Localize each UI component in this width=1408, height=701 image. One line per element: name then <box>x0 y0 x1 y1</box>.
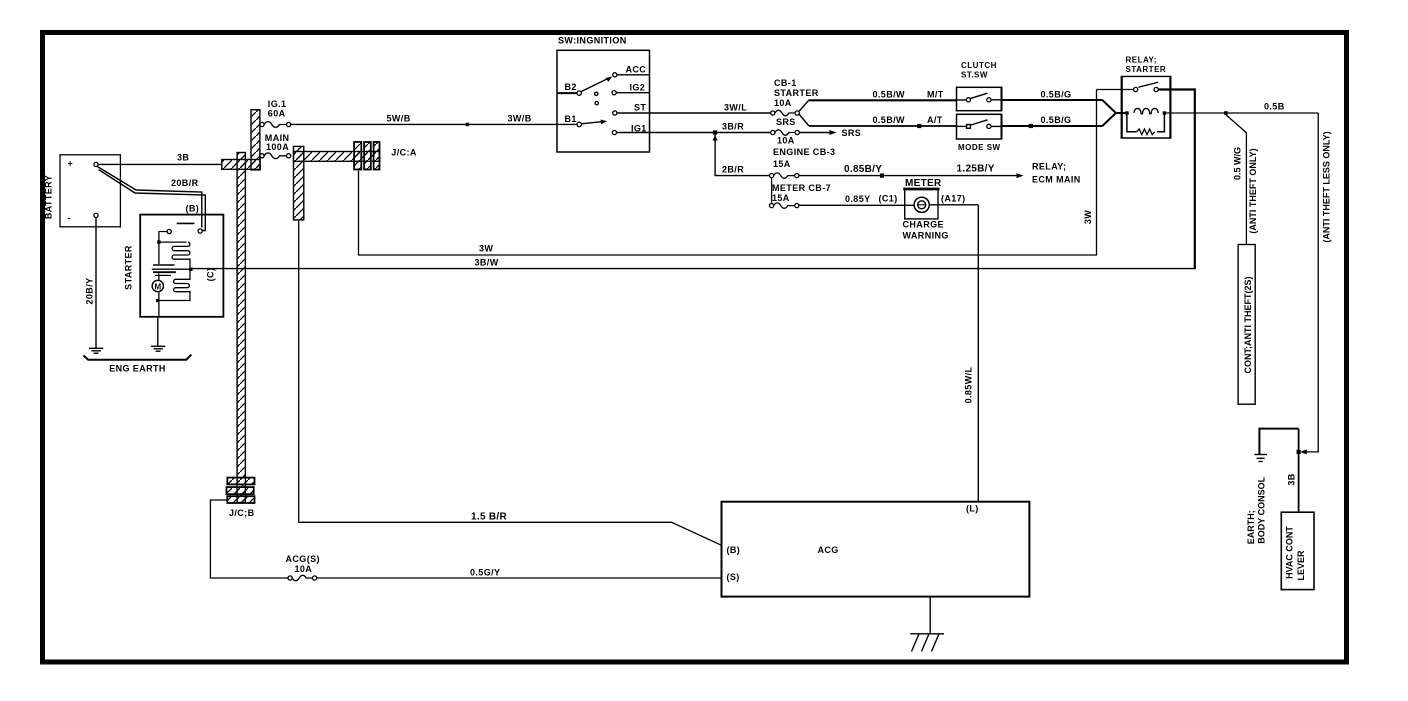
svg-text:0.5B/W: 0.5B/W <box>873 89 906 99</box>
wire 3B to HVAC <box>1287 429 1299 513</box>
node 0.5B split <box>1224 111 1228 115</box>
wire IG1 3B/R <box>617 122 771 133</box>
wire 5W/B 3W/B to ignition B1 <box>291 114 577 125</box>
fuse CB-1 STARTER 10A <box>771 78 819 116</box>
svg-text:1.25B/Y: 1.25B/Y <box>957 164 995 175</box>
svg-text:CLUTCH: CLUTCH <box>961 61 997 70</box>
svg-text:IG.1: IG.1 <box>268 99 287 109</box>
ignition ACC IG2 stubs <box>616 75 649 93</box>
ENG EARTH bracket <box>83 355 191 374</box>
svg-text:SRS: SRS <box>776 117 796 127</box>
svg-text:10A: 10A <box>774 98 792 108</box>
node 3B junction <box>1297 450 1301 454</box>
svg-text:10A: 10A <box>295 564 313 574</box>
svg-text:(B): (B) <box>727 545 741 555</box>
svg-text:3B: 3B <box>1287 473 1297 485</box>
svg-text:RELAY;: RELAY; <box>1126 56 1157 65</box>
svg-text:STARTER: STARTER <box>124 245 134 290</box>
earth body consol <box>1246 429 1299 545</box>
svg-text:0.5B/W: 0.5B/W <box>873 115 906 125</box>
svg-text:(L): (L) <box>966 504 979 514</box>
svg-text:SW:INGNITION: SW:INGNITION <box>558 36 627 46</box>
svg-text:0.5 W/G: 0.5 W/G <box>1233 147 1243 180</box>
fuse ENGINE CB-3 15A <box>770 147 836 178</box>
ACG ground <box>910 597 944 652</box>
wire A/T branch 0.5B/W <box>799 114 957 128</box>
svg-text:HVAC CONT: HVAC CONT <box>1285 526 1295 579</box>
svg-text:0.85Y: 0.85Y <box>845 194 871 204</box>
wire 3B battery to junction bar <box>98 153 222 165</box>
svg-text:CHARGE: CHARGE <box>903 220 944 230</box>
starter switch contacts <box>167 229 202 234</box>
ignition switch arm B2-ACC <box>581 77 612 92</box>
wire 0.5B coil output <box>1166 102 1318 114</box>
starter pull-in coil <box>172 242 190 267</box>
starter contact plates <box>152 265 191 275</box>
node splice on 5W/B <box>466 123 470 127</box>
svg-text:-: - <box>68 213 71 223</box>
node starter C junction <box>189 268 193 272</box>
wire 2B/R branch <box>715 134 769 176</box>
starter motor M <box>152 280 163 291</box>
wire ST 3W/L <box>617 103 771 114</box>
svg-text:5W/B: 5W/B <box>387 114 411 124</box>
relay starter box <box>1121 56 1172 139</box>
svg-text:ACG: ACG <box>818 545 839 555</box>
wire 0.5G/Y to ACG S <box>210 500 721 578</box>
svg-text:15A: 15A <box>772 193 790 203</box>
svg-text:(B): (B) <box>186 204 200 214</box>
wire relay output bold <box>1194 88 1196 268</box>
svg-text:3W/L: 3W/L <box>724 103 747 113</box>
svg-text:CB-1: CB-1 <box>774 78 797 88</box>
svg-text:BODY CONSOL: BODY CONSOL <box>1257 476 1267 543</box>
svg-text:LEVER: LEVER <box>1296 550 1306 581</box>
fuse MAIN 100A <box>260 133 291 159</box>
wire 0.5B/G A/T out <box>1002 115 1103 128</box>
svg-text:SRS: SRS <box>842 128 862 138</box>
ground battery <box>89 348 103 353</box>
wire 0.5B drop to 3B node <box>1300 113 1318 454</box>
junction bar vertical IG.1/MAIN <box>251 110 260 170</box>
svg-text:15A: 15A <box>773 159 791 169</box>
svg-text:0.5B: 0.5B <box>1264 102 1285 112</box>
wire M/T branch 0.5B/W <box>799 89 957 111</box>
wire 0.5B/G M/T out <box>1002 89 1103 100</box>
junction block J/C:A <box>354 142 417 170</box>
svg-text:2B/R: 2B/R <box>722 165 744 175</box>
charge warning lamp <box>903 197 949 240</box>
svg-text:J/C:A: J/C:A <box>391 148 417 158</box>
junction bar vertical 15B/R drop <box>294 146 304 220</box>
svg-text:0.5B/G: 0.5B/G <box>1041 115 1072 125</box>
starter solenoid plunger <box>177 222 195 224</box>
svg-text:3B/W: 3B/W <box>475 258 499 268</box>
svg-text:METER CB-7: METER CB-7 <box>772 183 831 193</box>
wire 0.5 W/G to anti-theft <box>1226 115 1332 245</box>
relay coil <box>1125 108 1166 114</box>
fuse ACG(S) 10A <box>288 575 317 580</box>
wire battery ground 20B/Y <box>85 218 96 349</box>
svg-text:1.5 B/R: 1.5 B/R <box>471 512 507 523</box>
mode SW box <box>957 114 1002 152</box>
wire 3W loop J/C:A to relay <box>359 90 1097 256</box>
svg-text:M/T: M/T <box>927 89 944 99</box>
svg-text:METER: METER <box>905 178 942 189</box>
svg-text:WARNING: WARNING <box>903 231 949 241</box>
svg-text:CONT;ANTI THEFT(2S): CONT;ANTI THEFT(2S) <box>1243 277 1253 374</box>
svg-text:0.85W/L: 0.85W/L <box>964 366 974 403</box>
svg-text:STARTER: STARTER <box>1126 65 1167 74</box>
svg-text:EARTH;: EARTH; <box>1246 510 1256 544</box>
fuse METER CB-7 15A <box>770 183 832 208</box>
chevron merge into relay <box>1102 100 1127 126</box>
fuse SRS 10A <box>771 117 800 146</box>
starter internal wires <box>159 232 187 317</box>
svg-text:IG2: IG2 <box>630 83 646 93</box>
wire 0.85Y to lamp <box>799 194 966 206</box>
svg-text:+: + <box>68 159 74 169</box>
svg-text:3W/B: 3W/B <box>508 114 532 124</box>
svg-text:0.5B/G: 0.5B/G <box>1041 89 1072 99</box>
svg-text:ACC: ACC <box>626 65 647 75</box>
junction bar horizontal battery feed <box>222 160 260 170</box>
svg-text:0.85B/Y: 0.85B/Y <box>844 164 882 175</box>
svg-text:(ANTI THEFT LESS ONLY): (ANTI THEFT LESS ONLY) <box>1322 131 1332 242</box>
svg-text:20B/R: 20B/R <box>171 178 199 188</box>
svg-text:ST: ST <box>634 103 646 113</box>
svg-text:ENG EARTH: ENG EARTH <box>109 364 166 374</box>
HVAC CONT LEVER box <box>1281 512 1314 589</box>
wire 3B/W long return <box>192 258 1196 269</box>
svg-text:(A17): (A17) <box>941 194 966 204</box>
junction bar long vertical to J/C:B <box>237 153 245 503</box>
wire lamp to A17 and 0.85W/L down <box>929 205 978 502</box>
clutch ST.SW box <box>957 61 1002 111</box>
ignition B2 stub <box>557 92 577 94</box>
svg-text:(C): (C) <box>206 268 216 282</box>
junction block J/C:B <box>227 478 255 518</box>
starter hold coil <box>159 271 190 301</box>
wire 1.5B/R to ACG B <box>299 220 722 545</box>
svg-text:ECM MAIN: ECM MAIN <box>1032 175 1081 185</box>
relay switch <box>1097 82 1195 91</box>
ignition switch box <box>557 36 650 153</box>
fuse IG.1 60A <box>260 99 291 127</box>
svg-text:(S): (S) <box>727 572 740 582</box>
CONT ANTI THEFT box <box>1238 245 1255 405</box>
svg-text:ST.SW: ST.SW <box>961 71 988 80</box>
svg-text:60A: 60A <box>268 109 286 119</box>
ignition terminal labels <box>565 65 647 134</box>
ignition terminals <box>577 73 617 135</box>
node starter switch junction <box>157 240 160 243</box>
wire 0.85B/Y 1.25B/Y to ECM relay <box>799 162 1081 185</box>
battery <box>44 155 121 227</box>
svg-text:3B/R: 3B/R <box>722 122 744 132</box>
wire link CB-3 to CB-7 <box>771 178 773 204</box>
wire starter ground <box>157 317 159 347</box>
svg-text:100A: 100A <box>266 142 289 152</box>
junction bar horizontal MAIN output <box>294 152 380 162</box>
relay resistor <box>1127 115 1165 135</box>
svg-text:3W: 3W <box>479 244 493 254</box>
svg-text:ACG(S): ACG(S) <box>286 554 320 564</box>
svg-text:10A: 10A <box>777 136 795 146</box>
svg-text:J/C;B: J/C;B <box>229 508 255 518</box>
svg-text:MODE SW: MODE SW <box>958 143 1001 152</box>
svg-text:0.5G/Y: 0.5G/Y <box>470 568 500 578</box>
node 3B/R junction <box>713 130 718 140</box>
svg-text:B1: B1 <box>565 114 577 124</box>
svg-text:STARTER: STARTER <box>774 88 819 98</box>
svg-text:20B/Y: 20B/Y <box>85 277 95 304</box>
svg-text:A/T: A/T <box>927 115 943 125</box>
svg-text:3W: 3W <box>1083 210 1093 224</box>
ignition switch arm B1 <box>582 120 608 125</box>
node starter bottom junction <box>156 299 159 302</box>
svg-text:(ANTI THEFT ONLY): (ANTI THEFT ONLY) <box>1248 148 1258 233</box>
ground starter <box>151 346 165 351</box>
wire SRS output arrow <box>799 128 861 138</box>
svg-text:(C1): (C1) <box>879 194 898 204</box>
svg-text:BATTERY: BATTERY <box>44 175 54 219</box>
svg-text:3B: 3B <box>177 153 189 163</box>
starter box <box>124 204 224 317</box>
meter box <box>903 178 942 219</box>
ACG box <box>722 502 1030 597</box>
svg-text:ENGINE CB-3: ENGINE CB-3 <box>773 147 835 157</box>
svg-text:B2: B2 <box>565 82 577 92</box>
svg-text:RELAY;: RELAY; <box>1032 162 1066 172</box>
wire 20B/R double line battery to starter B <box>98 167 206 231</box>
svg-text:M: M <box>154 282 161 291</box>
